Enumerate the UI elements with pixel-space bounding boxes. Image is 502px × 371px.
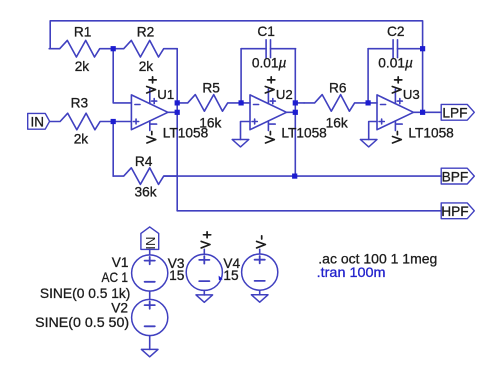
wire V- label to V4 [259,249,261,254]
op-amp U3 V+ pin label (rotated) [395,79,402,81]
op-amp U3 (LT1058) [377,77,454,143]
op-amp U2 V+ power pin stub [267,89,269,104]
svg-text:IN: IN [143,237,158,250]
svg-text:LT1058: LT1058 [408,126,454,141]
wire HPF vertical (R2 right / U1 output) [176,49,178,211]
node U3 output junction (LPF) [420,110,425,115]
node R1/R2/U1- junction [111,46,116,51]
wire R6 left stub [295,102,304,104]
port flag HPF [441,203,474,219]
ground at U3 non-inverting input [360,140,377,147]
ground below V3 [196,295,213,302]
wire R3 junction down to R4 [112,122,114,177]
op-amp U1 V+ pin label (rotated) [149,79,156,81]
svg-text:15: 15 [169,268,185,283]
wire top feedback loop (LPF output to R1) [50,21,422,49]
resistor R4 [113,168,177,185]
node R5/C1/U2- junction [239,100,244,105]
svg-text:16k: 16k [326,115,348,130]
op-amp U3 V- pin label (rotated) [396,132,398,135]
svg-text:0.01µ: 0.01µ [378,56,413,71]
op-amp U2 non-inverting input mark [252,121,257,123]
op-amp U1 (LT1058) [131,77,208,143]
op-amp U2 supply - polarity mark [269,123,275,125]
svg-text:V2: V2 [111,300,128,315]
wire V4 to ground [259,290,261,295]
node U2 output junction (BPF) [293,110,298,115]
wire U1 non-inverting input lead [113,121,131,123]
svg-text:.tran 100m: .tran 100m [317,264,386,280]
op-amp U2 inverting input mark [254,104,259,106]
wire LPF output lead to flag [423,111,442,113]
ground at U2 non-inverting input [232,140,249,147]
node C2/feedback junction [420,46,425,51]
wire C2 left riser [367,49,369,103]
op-amp U1 supply - polarity mark [151,123,157,125]
port flag IN (rotated, above V1) [141,227,159,250]
op-amp U2 V- pin label (rotated) [269,132,271,135]
svg-text:HPF: HPF [441,204,468,219]
wire V1 to V2 [149,291,151,299]
wire U2 output stub [287,111,296,113]
op-amp U3 inverting input mark [381,104,386,106]
svg-text:LT1058: LT1058 [281,126,327,141]
op-amp U1 V- pin label (rotated) [151,132,153,135]
op-amp U3 supply + polarity mark [397,100,402,102]
wire U1 output stub [168,111,177,113]
mouse cursor artifact on V3 [219,276,223,281]
svg-text:SINE(0 0.5 1k): SINE(0 0.5 1k) [40,285,131,301]
svg-text:R4: R4 [135,154,153,169]
svg-text:LPF: LPF [442,106,467,121]
wire IN flag to V1 [149,249,151,255]
svg-text:SINE(0 0.5 50): SINE(0 0.5 50) [35,314,129,330]
resistor R6 [304,95,368,112]
wire U3 inverting input lead [368,102,377,104]
svg-text:2k: 2k [139,59,154,74]
svg-text:V1: V1 [112,255,129,270]
op-amp U2 V- power pin stub [267,121,269,131]
ground below V4 [251,295,268,302]
op-amp U1 inverting input mark [135,104,140,106]
svg-text:R2: R2 [137,25,155,40]
op-amp U2 V+ pin label (rotated) [268,79,275,81]
wire C1 left riser [240,49,242,103]
node R6/C2/U3- junction [366,100,371,105]
net label V- (above V4) [261,236,263,239]
svg-text:U1: U1 [157,87,174,102]
svg-text:0.01µ: 0.01µ [252,56,287,71]
svg-text:C2: C2 [387,24,405,39]
op-amp U1 V- power pin stub [149,121,151,131]
svg-text:R3: R3 [71,95,89,110]
svg-text:2k: 2k [74,132,89,147]
wire U2 inverting input lead [241,102,250,104]
node R4/BPF junction [292,174,297,179]
wire R1-R2 junction down to U1 inverting input [113,49,131,103]
ground below V2 [141,349,158,356]
node C1/R6 junction [293,100,298,105]
svg-text:R1: R1 [74,25,92,40]
port flag IN (input) [28,113,50,129]
op-amp U3 triangle body [377,95,414,130]
svg-text:U2: U2 [276,87,293,102]
svg-text:2k: 2k [75,59,90,74]
op-amp U3 non-inverting input mark [379,121,384,123]
wire BPF horizontal to flag [164,175,441,177]
svg-text:LT1058: LT1058 [163,126,209,141]
voltage source V3 [186,254,222,290]
wire V+ label to V3 [203,249,205,254]
wire V2 to ground [149,336,151,350]
voltage source V4 [242,254,278,290]
svg-text:U3: U3 [403,87,420,102]
svg-text:BPF: BPF [442,169,469,184]
capacitor C1 [241,48,266,50]
op-amp U1 V+ power pin stub [149,89,151,104]
resistor R2 [113,40,177,57]
resistor R5 [177,95,241,112]
node U1 output junction (HPF) [175,110,180,115]
svg-text:36k: 36k [135,185,157,200]
wire U2 non-inverting input to ground [241,122,251,140]
wire BPF vertical (C1 right / U2 output) [294,49,296,176]
svg-text:AC 1: AC 1 [102,270,129,285]
wire U3 non-inverting input to ground [369,122,377,140]
voltage source V1 [132,255,168,291]
svg-text:C1: C1 [257,24,275,39]
op-amp U2 (LT1058) [250,77,327,143]
svg-text:IN: IN [30,114,44,129]
wire V3 to ground [203,290,205,295]
port flag LPF [441,104,474,120]
node R2/R5 junction [175,100,180,105]
node R3/R4/U1+ junction [111,119,116,124]
resistor R3 [50,113,114,130]
capacitor C2 [368,48,393,50]
op-amp U1 non-inverting input mark [133,121,138,123]
op-amp U1 triangle body [131,95,168,130]
svg-text:R5: R5 [202,80,220,95]
wire LPF vertical (C2 right / U3 output) [422,49,424,113]
op-amp U2 triangle body [250,95,287,130]
op-amp U3 V- power pin stub [394,121,396,131]
voltage source V2 [132,299,168,335]
svg-text:R6: R6 [329,80,347,95]
op-amp U1 supply + polarity mark [152,100,157,102]
wire HPF horizontal to flag [177,210,441,212]
wire U3 output stub [414,111,423,113]
op-amp U2 supply + polarity mark [270,100,275,102]
port flag BPF [441,168,474,184]
net label V+ (above V3) [204,234,211,236]
op-amp U3 supply - polarity mark [396,123,402,125]
op-amp U3 V+ power pin stub [394,89,396,104]
svg-text:15: 15 [223,268,239,283]
resistor R1 [49,40,113,57]
